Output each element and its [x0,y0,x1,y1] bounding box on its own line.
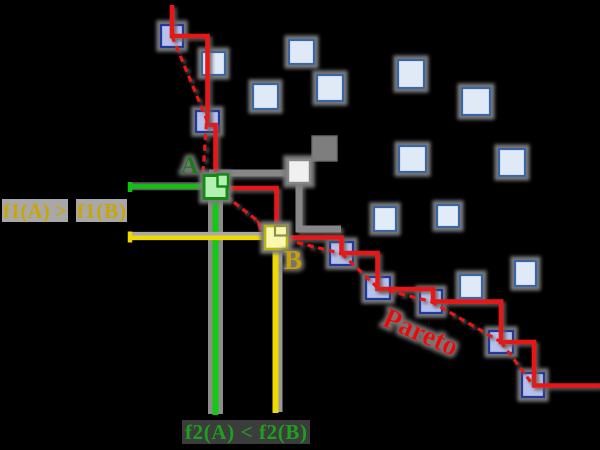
field square S3 [398,60,424,88]
field square S5 [399,146,426,172]
red solid staircase [172,5,600,386]
field square S9 [460,275,482,298]
arrowhead at B [256,219,268,230]
green vertical line [213,199,219,415]
svg-text:f1(B): f1(B) [77,199,126,223]
gray square [312,136,337,161]
yellow horizontal line [128,236,276,241]
green horizontal line [128,184,216,189]
svg-text:A: A [181,153,199,179]
svg-text:f2(A) < f2(B): f2(A) < f2(B) [185,420,307,444]
green tick [128,182,133,192]
pareto square P4 [366,277,390,299]
pareto square P6 [489,331,513,353]
point A small square [218,175,229,187]
pareto square P2 [196,111,219,132]
field square S10 [515,261,536,286]
field square mid top-left [253,84,278,109]
pareto square P3 [330,242,353,265]
field square S7 [437,205,459,227]
field square near top-left chain [202,52,225,75]
f2 text background box [182,420,310,444]
pareto square P7 [522,373,544,397]
svg-text:B: B [284,245,302,275]
white square [288,160,310,183]
point A big square [204,176,227,199]
field square S6 [499,149,525,176]
red dashed diagonals [172,36,533,385]
point B big square [265,226,287,249]
green vertical line halo [208,199,223,414]
pareto square P5 [420,290,442,313]
field square S8 [374,207,396,231]
yellow tick [128,232,133,243]
field square S2 [317,75,343,101]
svg-text:f1(A) >: f1(A) > [3,199,67,223]
pareto square P1 [161,25,183,47]
yellow vertical line [273,249,279,413]
yellow vertical line halo [273,249,283,412]
f1 text background boxes [2,199,68,222]
field square S4 [462,88,490,115]
field square S1 [289,40,314,64]
gray staircase A -> white square -> down -> right [209,173,341,229]
yellow horizontal line halo [128,232,276,240]
green horizontal line halo [128,182,216,190]
point B small square [275,226,287,236]
